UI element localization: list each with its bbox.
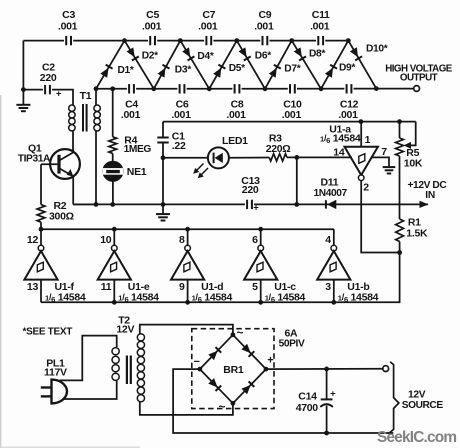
capacitor C6 — [177, 83, 186, 94]
node output bus — [112, 227, 117, 232]
svg-text:D3*: D3* — [175, 65, 191, 76]
svg-text:220: 220 — [242, 184, 259, 196]
node bridge AC bottom — [231, 401, 236, 406]
node R4 top — [110, 86, 115, 91]
transistor Q1 TIP31A — [50, 149, 80, 179]
diode D5 — [209, 41, 237, 89]
node LED line — [161, 155, 166, 160]
svg-text:+: + — [330, 388, 336, 399]
diode D11 1N4007 — [325, 200, 327, 208]
svg-text:220: 220 — [40, 72, 57, 84]
svg-text:BR1: BR1 — [223, 364, 244, 376]
svg-text:1/6 14584: 1/6 14584 — [265, 291, 306, 304]
wire U1-a pin 1 — [360, 122, 362, 147]
wire T2 secondary top to bridge — [140, 325, 233, 335]
capacitor C8 — [232, 83, 241, 94]
diode D10 — [348, 41, 376, 89]
wire bridge minus to bottom rail — [173, 369, 393, 433]
svg-text:9: 9 — [179, 281, 185, 293]
svg-text:1/6 14584: 1/6 14584 — [338, 291, 379, 304]
node bottom rail 2 — [151, 86, 156, 91]
svg-text:SOURCE: SOURCE — [402, 400, 444, 411]
node bottom rail 4 — [263, 86, 268, 91]
svg-text:117V: 117V — [44, 367, 67, 379]
LED1 emission arrows — [195, 164, 204, 173]
transformer T1 secondary winding — [95, 89, 97, 105]
capacitor C13 220 — [245, 199, 254, 210]
inverter U1-e — [113, 229, 115, 245]
wire left vertical to ground — [22, 41, 24, 105]
12V SOURCE brace — [390, 362, 399, 433]
node NE1 bottom — [110, 202, 115, 207]
node bottom rail 5 — [319, 86, 324, 91]
plug PL1 117V — [52, 380, 67, 404]
capacitor C5 — [148, 35, 157, 46]
svg-text:.001: .001 — [226, 109, 246, 121]
capacitor C7 — [204, 35, 213, 46]
svg-text:11: 11 — [101, 281, 112, 293]
svg-text:+: + — [267, 355, 273, 367]
svg-text:1/6 14584: 1/6 14584 — [45, 291, 86, 304]
svg-text:.001: .001 — [142, 20, 162, 32]
svg-text:.22: .22 — [172, 140, 186, 152]
ground (U1-a pin 7) — [383, 166, 396, 168]
node D1 anode / T1 secondary — [94, 86, 99, 91]
svg-text:IN: IN — [425, 190, 435, 201]
capacitor C14 4700 — [326, 369, 328, 399]
svg-text:10K: 10K — [404, 157, 423, 169]
svg-text:2: 2 — [363, 181, 369, 193]
inverter U1-c — [260, 229, 262, 245]
node output bus — [258, 227, 263, 232]
svg-text:.001: .001 — [171, 109, 191, 121]
node input bus — [331, 300, 336, 305]
node R1 bottom / U1-a output — [397, 250, 402, 255]
neon lamp NE1 — [104, 162, 123, 181]
bridge diode upper-left — [200, 335, 233, 369]
node C14 tap — [324, 367, 329, 372]
inverter U1-b — [333, 229, 335, 245]
resistor R4 1MEG — [112, 89, 114, 137]
node R3 drop — [294, 202, 299, 207]
diode D7 — [265, 41, 292, 89]
capacitor C2 — [43, 84, 52, 95]
transformer T2 primary winding — [112, 348, 119, 355]
diode D2 — [125, 41, 154, 89]
diode D4 — [180, 41, 209, 89]
bridge rectifier BR1 dashed outline — [192, 329, 274, 409]
svg-text:1/6 14584: 1/6 14584 — [192, 291, 233, 304]
diode D8 — [292, 41, 321, 89]
node top rail — [234, 38, 239, 43]
wire +12V / emitter line — [73, 203, 428, 205]
svg-text:D8*: D8* — [309, 49, 325, 60]
svg-text:12V: 12V — [408, 389, 426, 400]
node bottom rail 3 — [207, 86, 212, 91]
R5 wiper arrow — [409, 122, 416, 146]
inverter U1-d — [187, 229, 189, 245]
ground (center) — [162, 204, 164, 213]
svg-text:LED1: LED1 — [222, 135, 248, 147]
node C1/ground — [161, 202, 166, 207]
node input bus — [258, 300, 263, 305]
terminal 12V+ — [383, 366, 389, 372]
node D10 cathode / output — [374, 86, 379, 91]
node input bus — [112, 300, 117, 305]
wire lower rail (multiplier) — [96, 88, 414, 90]
capacitor C12 — [344, 83, 353, 94]
bridge diode upper-right — [233, 335, 266, 369]
svg-text:5: 5 — [252, 281, 258, 293]
scan edge artifacts — [0, 95, 2, 448]
wire plug to T2 primary top — [60, 336, 117, 381]
wire lower rail left segment (C2 to T1 primary) — [23, 90, 73, 105]
node bridge minus — [197, 367, 202, 372]
svg-text:7: 7 — [381, 146, 387, 158]
capacitor C10 — [288, 83, 297, 94]
svg-text:1/6 14584: 1/6 14584 — [320, 133, 361, 146]
svg-text:D5*: D5* — [229, 63, 245, 74]
inverter U1-f — [40, 229, 42, 245]
svg-text:.001: .001 — [282, 109, 302, 121]
svg-text:50PIV: 50PIV — [279, 338, 305, 349]
terminal HIGH VOLTAGE OUTPUT — [414, 86, 420, 92]
diode D6 — [237, 41, 265, 89]
svg-text:SeekIC.com: SeekIC.com — [377, 429, 456, 446]
node top rail — [122, 38, 127, 43]
diode D3 — [154, 41, 181, 89]
bridge diode lower-right — [233, 369, 266, 403]
wire top rail — [23, 40, 348, 42]
node top rail — [178, 38, 183, 43]
svg-text:.001: .001 — [254, 20, 274, 32]
transformer T1 core — [82, 104, 84, 132]
capacitor C9 — [260, 35, 269, 46]
+12V DC IN arrowhead — [420, 201, 429, 208]
wire inverter input bus — [41, 301, 334, 303]
svg-text:1N4007: 1N4007 — [314, 188, 348, 199]
svg-text:12: 12 — [27, 234, 39, 246]
wire inverter output bus — [41, 228, 334, 230]
svg-text:.001: .001 — [198, 20, 218, 32]
svg-text:D10*: D10* — [366, 44, 388, 55]
resistor R1 1.5K — [396, 219, 404, 242]
svg-text:D9*: D9* — [339, 63, 355, 74]
svg-text:300Ω: 300Ω — [49, 210, 74, 222]
wire bridge plus to terminal — [266, 368, 383, 370]
svg-text:1.5K: 1.5K — [406, 227, 428, 239]
svg-text:C14: C14 — [298, 391, 317, 403]
transformer T1 primary winding — [69, 105, 75, 111]
resistor R3 220ohm — [269, 154, 287, 161]
svg-text:D11: D11 — [321, 176, 339, 188]
op-amp U1-a (schmitt inverter) — [345, 147, 378, 175]
svg-text:+: + — [253, 203, 259, 214]
capacitor C3 — [64, 35, 73, 46]
transformer T2 core — [126, 356, 128, 385]
LED LED1 — [163, 157, 208, 159]
svg-text:~: ~ — [219, 400, 226, 414]
svg-text:220Ω: 220Ω — [266, 143, 291, 155]
svg-text:D1*: D1* — [118, 65, 134, 76]
wire output to input bus — [334, 253, 400, 303]
wire U1-a pin 7 to ground — [372, 157, 389, 166]
svg-text:6: 6 — [252, 234, 258, 246]
svg-text:NE1: NE1 — [127, 166, 147, 178]
transformer T2 secondary winding — [137, 334, 144, 341]
svg-text:10: 10 — [100, 234, 112, 246]
svg-text:.001: .001 — [121, 109, 141, 121]
svg-text:12V: 12V — [116, 323, 134, 335]
bridge diode lower-left — [200, 369, 233, 403]
wire plug to T2 primary bottom — [64, 381, 117, 399]
capacitor C1 .22 — [162, 122, 164, 138]
svg-text:+: + — [56, 89, 62, 100]
ground (left, below C2 node) — [16, 104, 30, 106]
capacitor C4 — [127, 83, 136, 94]
node R2/output bus — [39, 227, 44, 232]
resistor R5 10K — [396, 138, 404, 156]
node T1 secondary bottom — [94, 202, 99, 207]
diode D9 — [321, 41, 348, 89]
capacitor C11 — [316, 35, 325, 46]
diode D1 — [96, 41, 125, 89]
svg-text:4: 4 — [325, 234, 331, 246]
wire feedback line — [163, 121, 416, 123]
node input bus — [185, 300, 190, 305]
svg-text:1: 1 — [365, 134, 371, 146]
node R3/+12V junction — [294, 155, 299, 160]
svg-text:*SEE TEXT: *SEE TEXT — [23, 327, 73, 338]
resistor R2 300ohm — [40, 164, 42, 204]
node bridge plus — [264, 367, 269, 372]
svg-text:OUTPUT: OUTPUT — [400, 73, 438, 84]
svg-text:~: ~ — [237, 326, 244, 340]
svg-text:.001: .001 — [310, 20, 330, 32]
wire feedback right vertical — [399, 122, 401, 138]
svg-text:D6*: D6* — [255, 51, 271, 62]
svg-text:.001: .001 — [58, 20, 78, 32]
node top rail — [289, 38, 294, 43]
node C2/ground junction — [21, 87, 26, 92]
node R5 top — [397, 119, 402, 124]
svg-text:D4*: D4* — [197, 51, 213, 62]
wire U1-a output pin 2 — [361, 181, 399, 253]
node output bus — [185, 227, 190, 232]
svg-text:3: 3 — [325, 281, 331, 293]
node top rail — [346, 38, 351, 43]
svg-text:1/6 14584: 1/6 14584 — [118, 291, 159, 304]
svg-text:13: 13 — [27, 281, 39, 293]
svg-text:D7*: D7* — [284, 64, 300, 75]
svg-text:TIP31A: TIP31A — [18, 154, 51, 165]
wire T2 secondary bottom to bridge — [140, 402, 233, 415]
svg-text:−: − — [194, 356, 200, 368]
svg-text:8: 8 — [179, 234, 185, 246]
svg-text:4700: 4700 — [296, 402, 319, 414]
svg-text:D2*: D2* — [142, 51, 158, 62]
svg-text:.001: .001 — [338, 109, 358, 121]
node C14 bottom — [324, 431, 329, 436]
svg-text:1MEG: 1MEG — [124, 144, 152, 155]
svg-text:T1: T1 — [80, 90, 92, 102]
svg-text:14: 14 — [333, 147, 345, 159]
node U1-a input — [359, 119, 364, 124]
node bridge AC top — [231, 332, 236, 337]
